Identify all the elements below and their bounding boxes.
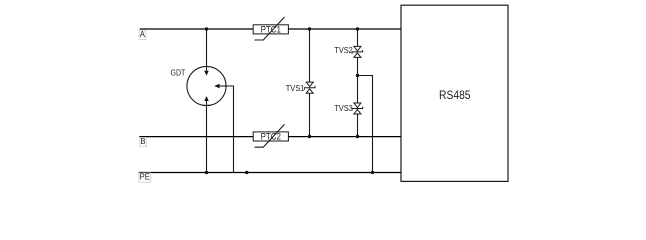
junction A/TVS1	[308, 27, 311, 30]
wire net PE (y=172.5)	[139, 172, 401, 174]
wire TVS2 column from A	[357, 29, 359, 46]
port label B	[140, 137, 147, 147]
svg-text:PTC2: PTC2	[261, 132, 281, 142]
wire net B (y=136.5)	[139, 136, 401, 138]
wire TVS2-TVS3 middle segment	[357, 57, 359, 103]
svg-text:TVS2: TVS2	[334, 46, 353, 55]
wire mid-branch to PE	[358, 76, 373, 173]
junction PE/branch	[371, 171, 374, 174]
TVS1 bidirectional suppressor	[304, 82, 315, 93]
junction B/TVS1	[308, 135, 311, 138]
svg-text:TVS3: TVS3	[334, 104, 353, 113]
junction TVS mid branch	[356, 74, 359, 77]
wire TVS3 column to B	[357, 114, 359, 136]
TVS2 bidirectional suppressor	[352, 46, 363, 57]
svg-text:RS485: RS485	[439, 88, 471, 102]
wire GDT third electrode to PE	[220, 86, 234, 173]
TVS3 bidirectional suppressor	[352, 103, 363, 114]
RS485 IC box U1	[401, 5, 508, 181]
junction A/TVS2	[356, 27, 359, 30]
wire GDT top electrode drop from A	[206, 29, 208, 71]
svg-text:GDT: GDT	[171, 68, 186, 77]
PTC1 thermistor	[253, 17, 288, 40]
junction PE/GDT	[205, 171, 208, 174]
wire net A (y=29)	[140, 28, 401, 30]
svg-text:TVS1: TVS1	[286, 84, 305, 93]
svg-text:PE: PE	[140, 172, 150, 181]
port label PE	[139, 172, 151, 182]
junction B/TVS3	[356, 135, 359, 138]
wire GDT bottom electrode to PE	[206, 101, 208, 173]
junction PE stray	[245, 171, 248, 174]
svg-text:A: A	[140, 30, 146, 39]
port label A	[139, 30, 146, 40]
GDT gas discharge tube	[171, 66, 227, 105]
svg-text:B: B	[140, 137, 145, 146]
junction A/GDT	[205, 27, 208, 30]
PTC2 thermistor	[253, 124, 288, 147]
wire TVS1 column to B	[309, 93, 311, 136]
wire TVS1 column from A	[309, 29, 311, 82]
svg-text:PTC1: PTC1	[261, 24, 281, 34]
